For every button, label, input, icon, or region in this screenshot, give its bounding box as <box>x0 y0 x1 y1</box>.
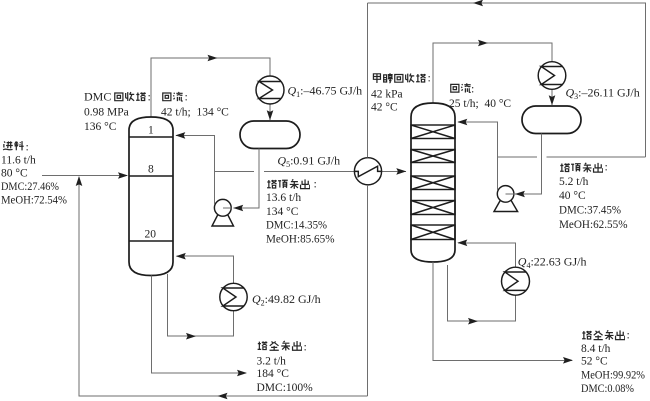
svg-text::: : <box>471 81 474 95</box>
T2 packing bed 5 <box>411 225 455 240</box>
svg-text:52 °C: 52 °C <box>581 356 608 368</box>
svg-text::: : <box>605 159 608 173</box>
T2 packing bed 1 <box>411 125 455 139</box>
pump P1 <box>212 199 234 226</box>
svg-text:8: 8 <box>148 164 154 176</box>
label: feed block (进料) <box>3 141 24 150</box>
svg-text::: : <box>314 176 317 190</box>
cross heat exchanger (feed/recycle interchanger) <box>354 158 381 185</box>
wire: reboiler E4 return to column2 <box>457 240 515 268</box>
svg-text:8.4 t/h: 8.4 t/h <box>581 343 611 355</box>
svg-text:11.6 t/h: 11.6 t/h <box>1 155 36 167</box>
svg-text:DMC:37.45%: DMC:37.45% <box>559 205 621 217</box>
svg-text::: : <box>148 90 151 104</box>
wire: reboiler E2 draw from column1 bottom <box>168 274 234 340</box>
condenser E1 (Q1) <box>256 76 284 104</box>
wire: column1 bottoms product line <box>152 276 248 377</box>
wire: condenser E1 outlet into reflux drum D1 (down arrow) <box>267 104 274 120</box>
reflux drum D1 <box>240 121 300 149</box>
label: reflux block column2 (回流) <box>451 83 471 92</box>
svg-text:20: 20 <box>145 229 157 241</box>
svg-text:5.2 t/h: 5.2 t/h <box>559 176 589 188</box>
svg-text:80 °C: 80 °C <box>1 167 28 179</box>
label: bottoms block column2 (塔釜采出) <box>582 330 625 339</box>
svg-text:MeOH:62.55%: MeOH:62.55% <box>559 219 628 231</box>
T1 tray line 8 <box>129 175 173 177</box>
svg-text:42 kPa: 42 kPa <box>371 88 403 100</box>
svg-text:184 °C: 184 °C <box>257 368 290 380</box>
wire: condenser E3 outlet into reflux drum D2 (down arrow) <box>549 90 556 106</box>
label: reflux block column1 (回流) <box>163 92 183 101</box>
svg-text::: : <box>304 340 307 354</box>
T2 packing bed 2 <box>411 150 455 163</box>
reflux drum D2 <box>522 106 581 134</box>
wire: feed line into column1 <box>42 172 128 179</box>
column T1 (DMC recovery tower) shell <box>129 117 173 276</box>
svg-text:DMC:14.35%: DMC:14.35% <box>266 220 327 232</box>
wire: bottom recycle line and riser joining feed <box>76 176 368 399</box>
wire: column1 overhead vapor line to condenser E1 <box>151 55 270 117</box>
svg-text:DMC:27.46%: DMC:27.46% <box>1 181 59 193</box>
T1 tray line 1 <box>129 136 173 138</box>
svg-text:DMC:0.08%: DMC:0.08% <box>581 383 634 395</box>
reboiler E4 (Q4) <box>502 267 530 295</box>
svg-text:42 °C: 42 °C <box>371 102 398 114</box>
svg-text::: : <box>627 328 630 342</box>
wire: column2 overhead vapor line to condenser E3 <box>433 40 552 103</box>
svg-text:DMC: DMC <box>84 90 111 104</box>
svg-text:3.2 t/h: 3.2 t/h <box>257 355 287 367</box>
T1 tray line 20 <box>129 240 173 242</box>
label: top product block column1 (塔顶采出) <box>267 179 310 188</box>
svg-text:MeOH:99.92%: MeOH:99.92% <box>581 369 645 381</box>
svg-text:DMC:100%: DMC:100% <box>257 382 314 394</box>
svg-text:40 °C: 40 °C <box>559 190 586 202</box>
svg-text:0.98 MPa: 0.98 MPa <box>84 106 129 118</box>
wire: recycle vertical line (top line to bottom line, through cross exchanger) <box>367 3 369 396</box>
svg-text:13.6 t/h: 13.6 t/h <box>266 192 301 204</box>
wire: pump P1 discharge riser and reflux return to column1 <box>175 132 214 204</box>
svg-text:MeOH:85.65%: MeOH:85.65% <box>266 233 335 245</box>
label: top product block column2 (塔顶采出) <box>560 163 603 172</box>
reboiler E2 (Q2) <box>220 283 247 310</box>
wire: drum D2 liquid downcomer to pump P2 <box>515 134 542 198</box>
wire: reboiler E2 return to column1 <box>176 253 234 283</box>
svg-text:MeOH:72.54%: MeOH:72.54% <box>1 194 67 206</box>
condenser E3 (Q3) <box>538 62 566 90</box>
wire: drum D1 liquid downcomer to pump P1 <box>233 149 259 212</box>
svg-text::: : <box>185 90 188 104</box>
pump P2 <box>494 186 518 212</box>
label: methanol recovery tower title block (甲醇回收塔) <box>373 73 425 83</box>
label: bottoms block column1 (塔釜采出) <box>258 341 302 350</box>
wire: column2 top product line to right edge (gap jump at drum downcomer) <box>497 156 645 158</box>
column T2 (methanol recovery tower) shell <box>411 103 455 262</box>
wire: reboiler E4 draw from column2 bottom <box>448 265 516 325</box>
T2 packing bed 3 <box>411 176 455 190</box>
svg-text:136 °C: 136 °C <box>84 121 117 133</box>
wire: top recycle line from right edge to recycle vertical <box>368 0 646 157</box>
svg-text:1: 1 <box>148 125 154 137</box>
T2 packing bed 4 <box>411 201 455 215</box>
wire: pump P2 discharge riser and reflux return to column2 <box>457 119 497 191</box>
svg-text:134 °C: 134 °C <box>266 206 299 218</box>
wire: column1 top product line to cross exchanger (tee off riser, gap jump at drum downcomer) <box>215 168 407 175</box>
svg-text::: : <box>26 139 29 153</box>
svg-text::: : <box>428 71 431 85</box>
svg-text:42 t/h; 134 °C: 42 t/h; 134 °C <box>161 107 229 119</box>
wire: column2 bottoms product line <box>433 262 573 364</box>
svg-text:25 t/h; 40 °C: 25 t/h; 40 °C <box>449 98 511 110</box>
